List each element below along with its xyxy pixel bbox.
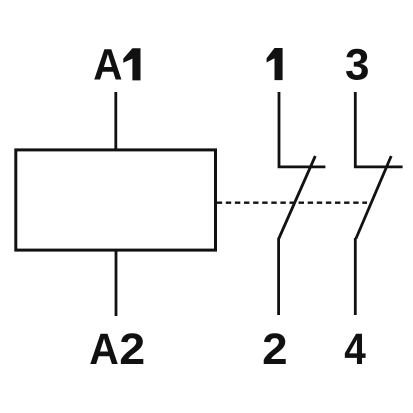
- wire contact 4 bottom lead: [354, 238, 357, 315]
- wire contact 2 bottom lead: [277, 238, 280, 315]
- contact blade 1-2: [279, 156, 316, 239]
- terminal label 1: [267, 48, 283, 80]
- svg-text:2: 2: [262, 325, 287, 374]
- svg-text:4: 4: [344, 325, 366, 374]
- svg-text:A: A: [89, 325, 119, 374]
- wire contact 1 top lead: [279, 92, 325, 167]
- mechanical linkage (dashed): [217, 201, 367, 203]
- wire A2 lead: [115, 250, 118, 316]
- svg-text:2: 2: [119, 325, 145, 374]
- wire A1 lead: [114, 92, 117, 150]
- contact blade 3-4: [356, 156, 391, 239]
- wire contact 3 top lead: [355, 92, 402, 167]
- svg-text:A: A: [93, 41, 122, 90]
- coil K1: [16, 150, 216, 250]
- svg-text:3: 3: [345, 41, 369, 90]
